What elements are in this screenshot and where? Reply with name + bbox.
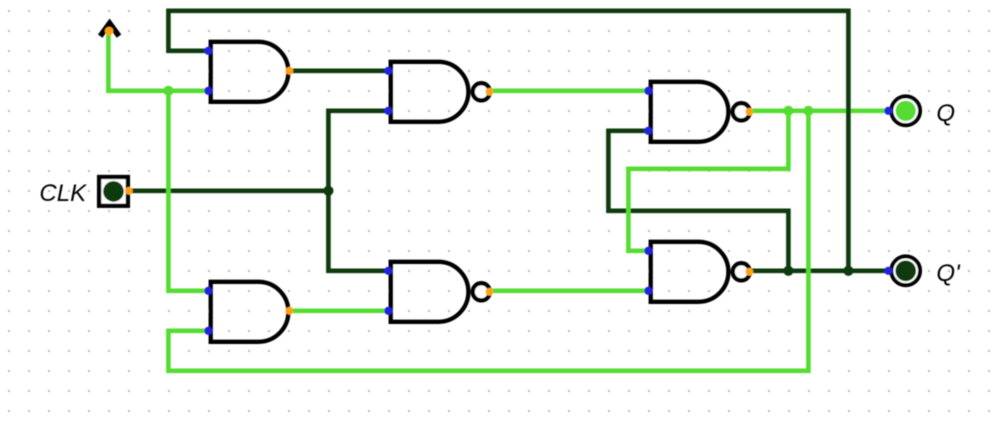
svg-text:CLK: CLK <box>39 180 87 207</box>
svg-text:Q: Q <box>936 100 955 127</box>
svg-text:Q': Q' <box>936 260 961 287</box>
